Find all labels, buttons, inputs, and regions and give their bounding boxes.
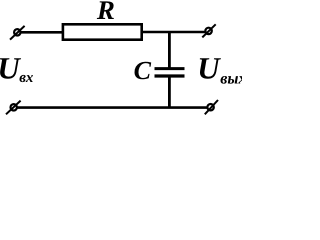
terminal XT1 (top-left input)	[10, 26, 25, 40]
wire (R to node A)	[143, 31, 170, 34]
svg-text:C: C	[134, 56, 152, 85]
svg-text:R: R	[96, 0, 115, 25]
terminal XT4 (bottom-right)	[205, 100, 218, 114]
node A (R-C junction)	[170, 31, 206, 34]
svg-text:вх: вх	[19, 70, 34, 86]
wire (XT1 to R)	[21, 31, 64, 34]
svg-text:вых: вых	[220, 70, 242, 87]
label U_vyx (output voltage)	[197, 51, 246, 88]
label U_vx (input voltage)	[0, 51, 34, 86]
svg-text:U: U	[0, 51, 21, 86]
wire (node A down to C)	[168, 32, 171, 69]
wire (C down to bottom rail)	[168, 76, 171, 108]
terminal XT3 (bottom-left)	[6, 101, 21, 115]
capacitor C	[155, 69, 185, 76]
resistor R	[63, 24, 142, 39]
svg-text:U: U	[197, 51, 221, 86]
terminal XT2 (top-right output)	[202, 24, 215, 37]
wire (bottom rail XT3 to XT4)	[17, 106, 207, 109]
